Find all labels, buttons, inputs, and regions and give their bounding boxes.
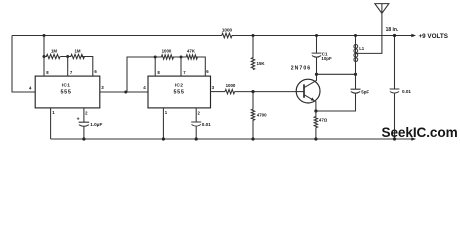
svg-text:6: 6 xyxy=(206,69,209,74)
svg-text:1000: 1000 xyxy=(222,28,233,33)
node 15K top on rail xyxy=(252,34,255,37)
svg-text:555: 555 xyxy=(173,90,184,96)
node gnd 0.01 xyxy=(393,137,396,140)
wire top supply rail xyxy=(12,35,413,37)
capacitor C1 10pF xyxy=(312,36,332,75)
svg-text:1M: 1M xyxy=(51,48,57,53)
watermark SeekIC.com xyxy=(382,125,458,140)
svg-text:L1: L1 xyxy=(359,46,365,51)
node IC2 pin8 junction xyxy=(154,56,157,59)
wire IC2 pin 3 output xyxy=(211,85,226,92)
svg-text:6: 6 xyxy=(94,69,97,74)
svg-text:4700: 4700 xyxy=(257,112,267,117)
svg-text:10pF: 10pF xyxy=(321,56,332,61)
wire antenna tap xyxy=(356,13,382,53)
svg-text:IC2: IC2 xyxy=(175,83,184,89)
wire IC2 pin 8 xyxy=(155,57,160,76)
svg-text:3: 3 xyxy=(212,85,215,90)
capacitor 0.01 (IC2 pin 2) xyxy=(191,108,211,139)
wire IC1 pin 7 xyxy=(60,57,73,77)
resistor 15K (bias upper) xyxy=(251,36,265,70)
capacitor 5pF (feedback) xyxy=(316,74,370,111)
node 0.01 top on rail xyxy=(393,34,396,37)
wire IC1 pin 3 to IC2 pin 4 xyxy=(100,85,148,92)
svg-text:4: 4 xyxy=(143,85,146,90)
wire IC2 pin 7 xyxy=(173,57,187,76)
svg-text:2N706: 2N706 xyxy=(291,65,311,71)
svg-text:3: 3 xyxy=(101,85,104,90)
svg-text:8: 8 xyxy=(157,70,160,75)
svg-text:1: 1 xyxy=(52,110,55,115)
svg-text:5pF: 5pF xyxy=(361,89,369,94)
wire IC1 pin 6 xyxy=(81,57,97,77)
node IC2 pin7 junction xyxy=(180,56,183,59)
svg-text:1: 1 xyxy=(165,110,168,115)
node IC1 pin8 / 1M junction xyxy=(43,55,46,58)
svg-text:1.0μF: 1.0μF xyxy=(90,122,102,127)
wire IC1 pin 8 from rail xyxy=(44,36,49,77)
svg-text:IC1: IC1 xyxy=(62,83,71,89)
svg-text:0.01: 0.01 xyxy=(202,122,211,127)
svg-text:+: + xyxy=(77,117,80,123)
svg-text:SeekIC.com: SeekIC.com xyxy=(382,125,458,140)
op IC2 555 box xyxy=(148,76,211,108)
svg-text:2: 2 xyxy=(198,110,201,115)
resistor 1000 (base drive) xyxy=(225,83,236,94)
resistor 1M (second) xyxy=(68,48,85,58)
wire output node to transistor base xyxy=(235,91,297,93)
ground terminal arrow xyxy=(411,137,416,140)
resistor 1000 (IC2 RA) xyxy=(155,48,173,59)
wire IC2 pin 1 to ground xyxy=(163,108,167,139)
+9 VOLTS terminal arrow xyxy=(411,33,448,40)
node top rail / IC1 Vcc xyxy=(43,34,46,37)
inductor L1 xyxy=(354,36,365,75)
svg-text:1M: 1M xyxy=(74,48,80,53)
resistor 1M (first) xyxy=(44,48,60,58)
node emitter junction xyxy=(314,109,317,112)
svg-text:0.01: 0.01 xyxy=(402,89,411,94)
wire IC1 pin 1 to ground xyxy=(51,108,56,139)
node feedback junction xyxy=(124,91,127,94)
wire collector to tank xyxy=(317,73,356,75)
svg-text:555: 555 xyxy=(60,90,71,96)
capacitor 0.01 (supply bypass) xyxy=(390,36,412,140)
node gnd 4700 xyxy=(251,137,254,140)
resistor 47 ohm (emitter) xyxy=(314,111,328,139)
transistor Q1 2N706 xyxy=(291,65,320,111)
svg-text:1000: 1000 xyxy=(162,48,172,53)
svg-text:+9 VOLTS: +9 VOLTS xyxy=(419,33,448,40)
node IC1 pin7 junction xyxy=(66,55,69,58)
svg-text:47Ω: 47Ω xyxy=(319,117,328,122)
node gnd IC2 pin2 xyxy=(195,137,198,140)
node C1 top on rail xyxy=(315,34,318,37)
svg-text:8: 8 xyxy=(46,70,49,75)
node gnd 47 ohm xyxy=(314,137,317,140)
wire feedback up to IC2 supply row xyxy=(127,57,155,92)
node gnd IC1 pin2 xyxy=(82,137,85,140)
svg-text:4: 4 xyxy=(29,86,32,91)
svg-text:7: 7 xyxy=(183,70,186,75)
wire left border to IC1 pin 4 xyxy=(12,36,35,93)
svg-text:15K: 15K xyxy=(257,61,266,66)
capacitor 1.0uF (IC1 pin 2) xyxy=(77,108,103,139)
svg-text:47K: 47K xyxy=(187,48,196,53)
svg-text:2: 2 xyxy=(85,110,88,115)
resistor 4700 (bias lower) xyxy=(251,92,267,139)
svg-text:1000: 1000 xyxy=(226,83,236,88)
resistor 1000 (supply decoupling, in top rail) xyxy=(222,28,233,38)
node collector junction xyxy=(315,73,318,76)
svg-text:7: 7 xyxy=(70,70,73,75)
wire IC2 pin 6 xyxy=(197,57,210,76)
node gnd IC2 pin1 xyxy=(162,137,165,140)
op IC1 555 box xyxy=(35,76,100,108)
node tank junction xyxy=(354,73,357,76)
wire ground rail xyxy=(51,138,414,140)
resistor 47K (IC2 RB) xyxy=(181,48,197,59)
svg-text:18 in.: 18 in. xyxy=(386,27,399,33)
node L1 top on rail xyxy=(354,34,357,37)
antenna xyxy=(375,4,399,33)
node base bias junction xyxy=(251,90,254,93)
